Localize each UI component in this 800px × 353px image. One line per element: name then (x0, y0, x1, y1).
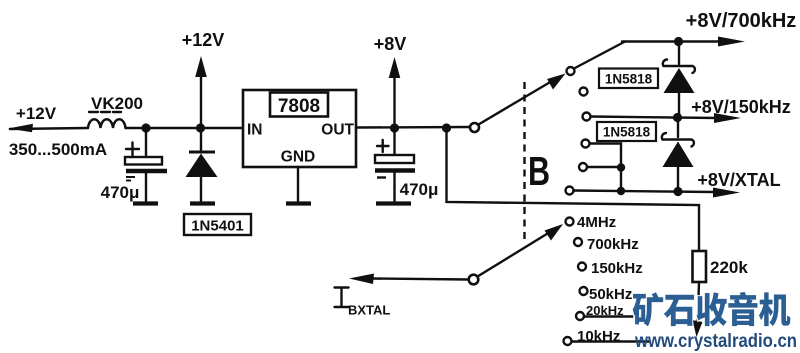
svg-text:50kHz: 50kHz (589, 286, 632, 303)
dashed gang line of switch B (523, 82, 525, 240)
node junction: tap to lower bus (442, 123, 451, 132)
label box 1N5401 (184, 214, 251, 235)
wire: +8V/700kHz rail (622, 40, 722, 42)
svg-text:10kHz: 10kHz (577, 328, 620, 345)
svg-text:1N5401: 1N5401 (191, 218, 244, 235)
node junction at +8V arrow / C2 (390, 123, 399, 132)
svg-text:+8V/150kHz: +8V/150kHz (691, 97, 791, 117)
watermark CJK text 矿石收音机 (633, 292, 791, 326)
svg-text:www.crystalradio.cn: www.crystalradio.cn (634, 330, 797, 352)
svg-text:350...500mA: 350...500mA (9, 140, 107, 159)
svg-text:VK200: VK200 (91, 94, 143, 113)
contact S1b-6 10kHz + wire (564, 337, 572, 345)
contact S1b-4 50kHz (580, 287, 588, 295)
resistor R1 220k (693, 251, 707, 282)
svg-text:+8V: +8V (374, 34, 407, 54)
label box 1N5818 (D2) (599, 69, 658, 89)
inductor L1 VK200 (ferrite choke) (88, 119, 126, 128)
contact S1b-3 150kHz (578, 263, 586, 271)
svg-text:470μ: 470μ (400, 180, 439, 199)
svg-text:470μ: 470μ (101, 183, 140, 202)
svg-text:1N5818: 1N5818 (605, 72, 653, 87)
wire GND pin down (297, 167, 299, 202)
contact S1b-5 20kHz + wire (576, 312, 584, 320)
arrowhead at bottom of R1 wire (693, 320, 703, 337)
capacitor C2 470u (electrolytic) (393, 128, 395, 155)
wire: pivot to IBXTAL (371, 279, 469, 280)
switch S1a arm (479, 81, 553, 125)
arrowhead 700kHz rail (718, 37, 745, 47)
arrowhead XTAL rail (713, 188, 740, 198)
wire below R1 (698, 282, 700, 330)
wire +8V arrow stub up (393, 75, 395, 128)
node on 700kHz rail (674, 37, 683, 46)
label box 1N5818 (D3) (597, 122, 656, 141)
node junction at D1 / +12V arrow (196, 123, 205, 132)
wire: contact5 to vertical link (587, 166, 621, 168)
arrowhead +12V up (195, 56, 207, 77)
wire: 7808 OUT to switch pivot (356, 126, 470, 129)
svg-text:4MHz: 4MHz (577, 214, 616, 231)
contact S1a-4 (582, 140, 590, 148)
wire: tap down and right to 220k (447, 128, 700, 251)
svg-text:BXTAL: BXTAL (348, 303, 390, 318)
wire: main +12V input rail (10, 128, 88, 129)
wire +12V arrow stub up (200, 74, 202, 128)
svg-text:GND: GND (281, 149, 315, 166)
node on XTAL rail at diode D3 (673, 187, 682, 196)
label I BXTAL (335, 288, 349, 308)
C2 plus sign (377, 140, 389, 152)
contact S1a-5 (579, 163, 587, 171)
wire: contact1 up to 700kHz rail (574, 42, 625, 69)
svg-text:IN: IN (247, 122, 263, 139)
7808 value sub-box (270, 93, 328, 117)
svg-text:OUT: OUT (321, 122, 354, 139)
C1 plus sign (126, 143, 139, 156)
contact S1a-1 (567, 67, 575, 75)
svg-text:+8V/700kHz: +8V/700kHz (686, 10, 797, 32)
svg-text:1N5818: 1N5818 (603, 125, 651, 140)
C2 ground bar (376, 201, 411, 205)
capacitor C1 470u (electrolytic) (145, 128, 147, 157)
switch S1b pivot (lower section) (469, 275, 479, 285)
U1 ground bar (286, 201, 311, 205)
contact S1a-2 (580, 88, 588, 96)
svg-text:20kHz: 20kHz (586, 303, 624, 318)
svg-text:150kHz: 150kHz (591, 260, 643, 277)
C2 minus sign (377, 176, 386, 178)
svg-text:+12V: +12V (182, 30, 225, 50)
svg-text:B: B (528, 148, 550, 194)
svg-text:700kHz: 700kHz (587, 236, 639, 253)
diode D2 1N5818 (schottky) (678, 42, 680, 65)
wire: +8V/150kHz rail (591, 117, 719, 119)
wire: contact4 to vertical link (590, 144, 622, 192)
node on 150kHz rail (673, 113, 682, 122)
arrowhead +8V up (389, 57, 401, 78)
contact S1b-1 4MHz (566, 218, 574, 226)
contact S1a-6 (566, 187, 574, 195)
C1 ground bar (133, 201, 158, 205)
node junction at C1 (141, 123, 150, 132)
diode D1 1N5401 (200, 128, 202, 151)
arrowhead IBXTAL (left) (349, 274, 374, 285)
arrowhead 150kHz rail (714, 113, 741, 123)
C1 minus sign (126, 177, 135, 181)
wire: from inductor to 7808 IN (126, 127, 244, 129)
svg-text:220k: 220k (710, 258, 748, 277)
switch S1b arm (478, 232, 551, 277)
contact S1a-3 (583, 113, 591, 121)
svg-text:+8V/XTAL: +8V/XTAL (697, 170, 780, 190)
diode D3 1N5818 (schottky) (677, 118, 679, 137)
svg-text:+12V: +12V (16, 104, 57, 123)
regulator U1 7808 box (243, 90, 356, 167)
switch S1a pivot (upper section) (470, 123, 479, 132)
node on link at contact5 (617, 163, 625, 171)
D1 ground bar (190, 201, 215, 205)
contact S1b-2 700kHz (574, 238, 582, 246)
input arrowhead (left) (8, 124, 33, 132)
svg-text:7808: 7808 (278, 96, 320, 117)
node on link at XTAL rail (617, 187, 625, 195)
wire: +8V/XTAL rail (574, 191, 715, 193)
